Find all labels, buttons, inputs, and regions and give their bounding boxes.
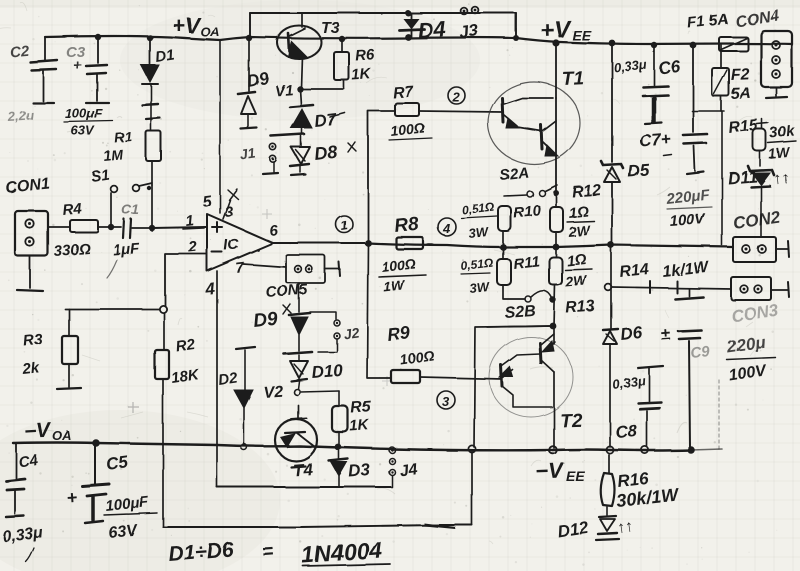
label C9 value 220u/100V xyxy=(725,333,776,385)
resistor R1 1M xyxy=(103,128,161,185)
jumper J3 xyxy=(458,7,480,42)
label -VOA xyxy=(23,419,71,443)
svg-text:+V: +V xyxy=(172,13,202,38)
label note D1..D6 = 1N4004 xyxy=(168,536,390,568)
svg-text:1K: 1K xyxy=(349,417,370,435)
wire op-amp pin2 to node xyxy=(165,254,206,306)
label R12 value 1/2W xyxy=(567,203,594,240)
svg-text:2,2u: 2,2u xyxy=(6,107,34,124)
svg-text:V1: V1 xyxy=(274,82,294,100)
op-amp IC xyxy=(207,214,273,271)
resistor R9 100 xyxy=(386,323,502,383)
node 1 circled xyxy=(336,216,353,233)
connector CON1 xyxy=(5,175,70,291)
wire R4 to C1 node xyxy=(98,224,155,231)
jumper J4 xyxy=(389,447,418,487)
capacitor C1 1uF xyxy=(107,201,152,278)
svg-text:R3: R3 xyxy=(23,331,45,350)
svg-text:↑↑: ↑↑ xyxy=(616,518,634,537)
svg-text:OA: OA xyxy=(200,24,220,39)
svg-text:−V: −V xyxy=(535,458,566,484)
svg-text:D1: D1 xyxy=(154,46,175,66)
svg-text:1: 1 xyxy=(185,212,195,230)
capacitor C4 0,33u xyxy=(2,443,45,562)
node 4 circled xyxy=(438,218,456,236)
capacitor C9 xyxy=(660,289,711,454)
svg-text:C3: C3 xyxy=(66,44,86,61)
resistor R16 30k/1W xyxy=(601,455,681,511)
node -VOA junction dots xyxy=(92,439,100,447)
connector CON2 xyxy=(732,207,789,262)
wire +VOA top rail xyxy=(45,36,792,44)
svg-text:D7: D7 xyxy=(313,110,338,131)
svg-text:100μF: 100μF xyxy=(65,106,104,121)
svg-text:30k: 30k xyxy=(769,122,796,142)
svg-text:C1: C1 xyxy=(121,201,139,217)
svg-text:R13: R13 xyxy=(565,298,596,317)
transistor T1 xyxy=(488,68,584,164)
transistor T3 xyxy=(277,13,340,88)
switch S2A xyxy=(499,164,559,197)
svg-text:D6: D6 xyxy=(619,323,643,344)
svg-text:CON5: CON5 xyxy=(265,281,308,301)
svg-text:S2A: S2A xyxy=(499,164,530,184)
connector CON3 xyxy=(730,277,789,326)
svg-text:63V: 63V xyxy=(71,123,95,138)
switch S1 xyxy=(90,167,152,227)
svg-text:R14: R14 xyxy=(619,261,650,281)
svg-text:D8: D8 xyxy=(313,142,338,164)
svg-text:C7+: C7+ xyxy=(639,130,672,151)
connector CON5 xyxy=(265,255,340,301)
svg-text:D1÷D6: D1÷D6 xyxy=(168,538,235,566)
pin 7 to CON5 xyxy=(235,259,286,277)
resistor R2 18K xyxy=(155,313,201,444)
svg-text:OA: OA xyxy=(52,428,72,443)
node +VOA junction dots xyxy=(95,10,519,42)
diode D7 xyxy=(290,89,345,134)
svg-text:1μF: 1μF xyxy=(112,240,141,259)
svg-text:R6: R6 xyxy=(355,47,376,65)
capacitor C2 xyxy=(6,37,57,124)
diode D10 xyxy=(290,355,344,382)
resistor R10 xyxy=(498,202,542,246)
wire top loop A xyxy=(250,13,516,38)
diode D2 xyxy=(217,347,255,450)
diode D5 zener xyxy=(601,43,651,244)
svg-text:R2: R2 xyxy=(175,336,197,356)
svg-text:R9: R9 xyxy=(386,323,411,345)
svg-text:S1: S1 xyxy=(90,167,111,186)
svg-text:1W: 1W xyxy=(768,144,792,162)
resistor R4 330 xyxy=(53,200,98,260)
svg-text:=: = xyxy=(261,540,275,563)
svg-text:2W: 2W xyxy=(564,272,589,290)
diode D1 xyxy=(141,38,176,131)
node +VEE junction dots xyxy=(552,39,696,48)
svg-text:R5: R5 xyxy=(350,399,373,417)
node V1 xyxy=(274,82,344,100)
node R2/R3 junction xyxy=(65,305,167,312)
svg-text:R7: R7 xyxy=(392,84,415,102)
wire CON3 faint drop xyxy=(718,380,720,449)
svg-text:R4: R4 xyxy=(62,200,83,219)
svg-text:R10: R10 xyxy=(513,202,543,222)
resistor R5 1K xyxy=(332,391,373,450)
svg-text:C4: C4 xyxy=(17,451,39,471)
diode D8 xyxy=(290,136,356,175)
wire C7/F2 to R15 branch xyxy=(692,111,724,245)
node 2 circled xyxy=(449,88,466,106)
diode D11 zener xyxy=(727,166,790,237)
svg-text:J3: J3 xyxy=(458,20,480,42)
svg-text:T1: T1 xyxy=(561,68,584,90)
resistor R6 1K xyxy=(334,39,376,89)
svg-text:R8: R8 xyxy=(393,214,420,237)
svg-text:D2: D2 xyxy=(217,369,239,389)
svg-text:−V: −V xyxy=(23,419,52,443)
svg-text:J4: J4 xyxy=(398,461,418,480)
svg-text:R12: R12 xyxy=(571,182,602,201)
capacitor C6 xyxy=(613,45,682,124)
svg-text:C8: C8 xyxy=(615,421,639,442)
wire C1 node to op-amp pin1 xyxy=(152,227,206,228)
node V2 xyxy=(263,381,339,402)
wire R7 to T1 base xyxy=(419,111,502,112)
resistor R13 xyxy=(549,247,596,329)
wire T1 collector vertical xyxy=(555,43,557,194)
svg-text:EE: EE xyxy=(572,27,591,43)
svg-text:+V: +V xyxy=(539,16,572,44)
node bar D7/D8 xyxy=(271,134,304,136)
transistor T4 xyxy=(275,405,317,480)
wire R7 left to output node xyxy=(368,111,395,243)
svg-text:4: 4 xyxy=(442,221,451,236)
svg-text:5A: 5A xyxy=(731,85,752,103)
wire output-stage bottom box xyxy=(217,486,391,488)
label R11 value xyxy=(460,256,495,296)
pin 2 label xyxy=(187,238,199,256)
svg-text:T2: T2 xyxy=(559,410,582,432)
wire bottom ground run xyxy=(163,523,472,529)
svg-text:+: + xyxy=(66,487,78,508)
pin 4 xyxy=(203,271,217,487)
svg-text:D10: D10 xyxy=(311,361,344,382)
transistor T2 xyxy=(487,326,583,454)
connector CON4 xyxy=(734,8,792,98)
svg-text:D9: D9 xyxy=(252,309,279,332)
wire R2 bottom to ground run xyxy=(162,444,164,527)
pin 6 output xyxy=(269,222,372,246)
svg-text:3W: 3W xyxy=(468,224,491,241)
svg-text:C9: C9 xyxy=(690,343,712,362)
svg-text:C6: C6 xyxy=(657,57,681,78)
label R13 value xyxy=(564,251,592,290)
svg-text:2k: 2k xyxy=(21,359,41,378)
diode D9 xyxy=(238,38,271,129)
svg-text:D3: D3 xyxy=(348,460,372,481)
svg-text:3: 3 xyxy=(442,394,450,409)
svg-text:2: 2 xyxy=(452,90,461,105)
resistor R11 xyxy=(497,247,541,285)
resistor R7 100 xyxy=(389,84,432,140)
svg-text:63V: 63V xyxy=(108,522,139,542)
svg-text:D9: D9 xyxy=(245,68,270,91)
wire R8 node down to R9 xyxy=(367,243,391,378)
svg-text:3W: 3W xyxy=(469,279,492,296)
svg-text:S2B: S2B xyxy=(504,303,536,322)
svg-text:EE: EE xyxy=(566,468,585,484)
wire S2B junction run xyxy=(468,326,553,525)
diode D12 xyxy=(556,507,634,541)
jumper J1 xyxy=(239,144,278,174)
jumper J2 xyxy=(310,312,360,352)
svg-text:1Ω: 1Ω xyxy=(568,203,590,222)
svg-text:R1: R1 xyxy=(114,128,133,146)
resistor R14 1k/1W xyxy=(605,259,731,293)
svg-text:1Ω: 1Ω xyxy=(566,251,588,270)
svg-text:T3: T3 xyxy=(321,20,340,37)
svg-text:↑↑: ↑↑ xyxy=(773,169,791,188)
svg-text:R11: R11 xyxy=(513,253,541,273)
svg-text:1W: 1W xyxy=(383,277,407,295)
wire -VOA / -VEE bottom rail xyxy=(13,443,722,451)
diode D9star xyxy=(252,283,310,351)
switch S2B xyxy=(503,285,556,322)
label +VEE xyxy=(539,16,591,44)
svg-text:C2: C2 xyxy=(9,42,30,61)
node bar D9*/D10 xyxy=(284,352,312,354)
svg-text:D4: D4 xyxy=(417,16,447,43)
fuse F1 5A xyxy=(687,11,748,51)
label +VOA xyxy=(172,13,220,39)
svg-text:T4: T4 xyxy=(292,460,314,480)
pin 5 xyxy=(201,40,220,213)
capacitor C8 0,33u xyxy=(611,366,663,454)
label -VEE xyxy=(535,458,585,484)
capacitor C7 220uF xyxy=(639,45,712,230)
fuse F2 5A xyxy=(712,45,752,111)
svg-text:D5: D5 xyxy=(627,160,651,181)
diode D3 xyxy=(329,447,372,487)
svg-text:J1: J1 xyxy=(239,145,257,163)
svg-text:1M: 1M xyxy=(103,146,124,164)
svg-text:330Ω: 330Ω xyxy=(53,240,91,260)
node 3 circled xyxy=(437,391,455,409)
svg-text:J2: J2 xyxy=(342,324,360,342)
svg-text:100V: 100V xyxy=(669,210,707,230)
pin 3 with x xyxy=(223,189,238,221)
diode D4 xyxy=(399,13,446,43)
label R10 value 0,51/3W xyxy=(461,200,497,241)
capacitor C3 xyxy=(64,37,113,138)
svg-text:1K: 1K xyxy=(351,66,372,84)
svg-text:D11: D11 xyxy=(727,167,758,188)
resistor R15 30k/1W xyxy=(728,117,796,166)
pin 1 label xyxy=(183,212,204,230)
diode D6 zener xyxy=(603,245,644,454)
resistor R12 xyxy=(550,182,602,246)
svg-text:2W: 2W xyxy=(567,222,592,240)
svg-text:C5: C5 xyxy=(105,452,130,474)
resistor R8 100/1W xyxy=(379,214,426,295)
svg-text:F2: F2 xyxy=(731,66,750,84)
svg-text:V2: V2 xyxy=(263,384,284,402)
svg-text:R15: R15 xyxy=(728,117,760,137)
svg-text:IC: IC xyxy=(223,236,240,254)
wire main output rail xyxy=(368,242,733,251)
resistor R3 2k xyxy=(21,309,81,389)
capacitor C5 100uF/63V xyxy=(66,443,157,542)
